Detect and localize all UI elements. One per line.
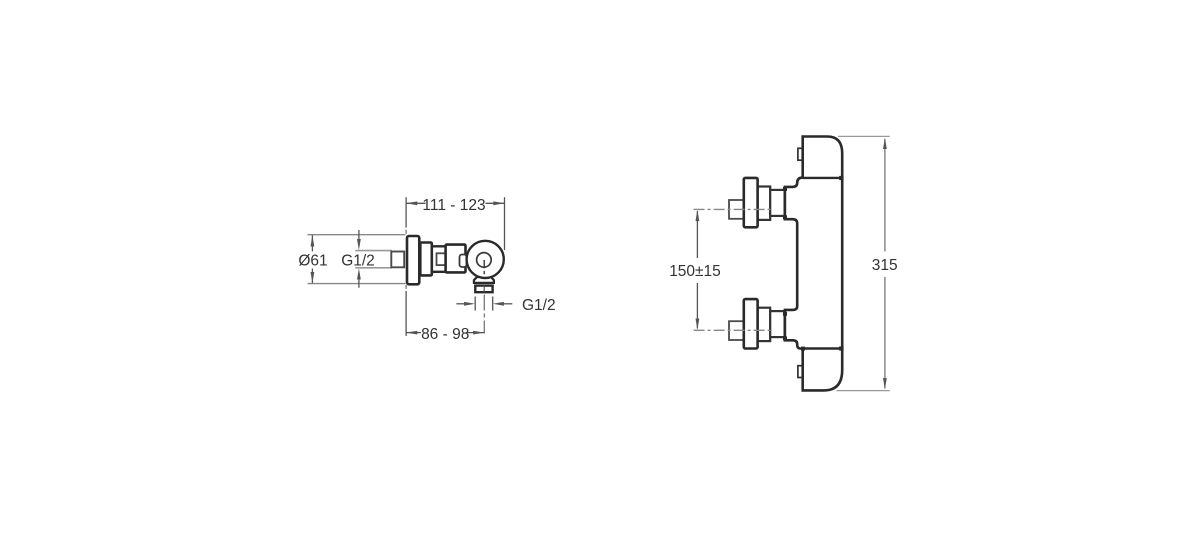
top cap joint line	[803, 177, 842, 179]
junction dots body joints	[783, 176, 844, 351]
small square detail	[437, 253, 446, 265]
lower leg flange	[744, 299, 758, 348]
dim 315 line + arrows	[883, 138, 887, 389]
union nut 1	[420, 243, 432, 276]
centerline upper inlet	[694, 208, 772, 210]
bottom cap joint line	[803, 347, 842, 349]
svg-text:150±15: 150±15	[669, 263, 721, 280]
valve body outline	[785, 137, 842, 391]
svg-text:86 - 98: 86 - 98	[421, 326, 469, 343]
outlet groove	[474, 282, 493, 284]
upper leg flange	[744, 178, 758, 227]
G1/2 outlet dim line + arrows	[456, 302, 512, 306]
tab left of knob	[460, 255, 467, 268]
lower leg neck	[758, 308, 771, 341]
lower leg square pipe end	[729, 321, 746, 340]
dia61 ext line bottom	[308, 283, 406, 285]
upper leg neck	[758, 187, 771, 220]
dim 150+-15 line + arrows	[696, 210, 700, 330]
315 ext line bottom	[837, 390, 890, 392]
svg-text:G1/2: G1/2	[341, 252, 375, 269]
G1/2 dim line + arrows (wall pipe)	[357, 230, 361, 288]
svg-text:Ø61: Ø61	[298, 252, 327, 269]
body cylinder lines	[431, 245, 447, 247]
wall pipe G1/2	[355, 250, 392, 252]
upper leg cone	[770, 190, 784, 216]
dim 111-123 ext line right	[504, 197, 506, 250]
clip notch upper cap	[798, 148, 803, 160]
centerline lower inlet	[694, 329, 772, 331]
lower leg cone	[770, 311, 784, 337]
clip notch lower cap	[798, 366, 803, 378]
knob circle	[467, 241, 504, 278]
ext line below flange (86-98 left)	[405, 285, 407, 289]
dim 86-98 line + arrows	[406, 331, 484, 335]
svg-text:315: 315	[872, 257, 898, 274]
dim 111-123 ext line left	[405, 197, 407, 227]
svg-text:G1/2: G1/2	[522, 297, 556, 314]
knob center mark	[483, 260, 485, 268]
315 ext line top	[838, 135, 890, 137]
knob inner circle	[477, 253, 492, 268]
svg-text:111 - 123: 111 - 123	[422, 197, 485, 214]
outlet nut	[475, 286, 492, 293]
dia61 dim line + arrows	[311, 235, 315, 283]
outlet centerline	[483, 295, 485, 337]
union nut 2	[446, 245, 466, 273]
upper leg square pipe end	[729, 200, 746, 219]
G1/2 outlet ext tick left	[474, 297, 476, 311]
dia61 ext line top	[308, 234, 406, 236]
G1/2 outlet ext tick right	[492, 297, 494, 311]
pipe square fitting	[391, 252, 404, 268]
outlet collar	[474, 277, 494, 283]
dim 111-123 line + arrows	[406, 201, 504, 205]
wall flange	[407, 236, 419, 284]
